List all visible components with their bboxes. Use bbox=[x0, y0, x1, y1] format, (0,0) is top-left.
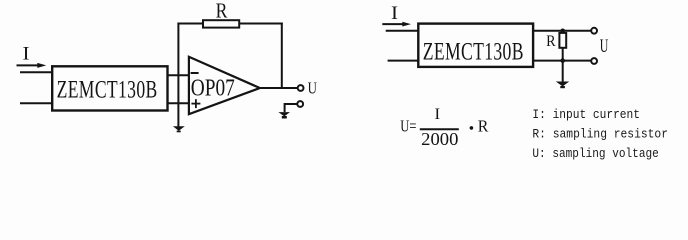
wire bottom terminal to ground bbox=[285, 104, 298, 112]
svg-text:I: input current: I: input current bbox=[532, 107, 640, 122]
terminal circle right top bbox=[591, 28, 597, 34]
wire top input left segment bbox=[20, 71, 54, 73]
svg-text:ZEMCT130B: ZEMCT130B bbox=[423, 38, 524, 65]
terminal circle right bottom bbox=[591, 58, 597, 64]
op-amp non-inverting input plus sign bbox=[191, 103, 200, 105]
wire sampling resistor branch bbox=[562, 31, 564, 82]
resistor R feedback body bbox=[203, 20, 239, 27]
svg-text:I: I bbox=[391, 3, 398, 24]
resistor R sampling body bbox=[559, 33, 566, 48]
svg-text:I: I bbox=[23, 44, 30, 65]
wire top input (right circuit) left segment bbox=[386, 30, 420, 32]
junction dot bottom bbox=[560, 58, 565, 63]
svg-text:2000: 2000 bbox=[421, 129, 458, 149]
module ZEMCT130B (right) bbox=[418, 24, 533, 67]
op-amp U1 OP07 bbox=[189, 57, 260, 114]
op-amp inverting input minus sign bbox=[191, 72, 199, 74]
ground (output side) bbox=[278, 112, 290, 116]
svg-text:ZEMCT130B: ZEMCT130B bbox=[57, 77, 158, 104]
module ZEMCT130B (left) bbox=[52, 66, 167, 110]
current arrow (right) bbox=[382, 23, 403, 25]
wire bottom input (right circuit) left segment bbox=[388, 60, 420, 62]
wire feedback top bbox=[177, 23, 282, 25]
wire op-amp output bbox=[259, 87, 298, 89]
formula fraction bar bbox=[420, 128, 459, 130]
svg-text:R: R bbox=[546, 33, 556, 50]
svg-text:OP07: OP07 bbox=[191, 75, 235, 101]
svg-text:U: U bbox=[600, 36, 609, 57]
svg-text:I: I bbox=[435, 106, 441, 123]
svg-text:R: R bbox=[216, 0, 228, 23]
svg-text:U: U bbox=[308, 79, 317, 98]
terminal circle output bottom bbox=[297, 101, 303, 107]
wire bottom output to terminal bbox=[533, 60, 591, 62]
svg-text:R: R bbox=[478, 116, 489, 135]
svg-text:R: sampling resistor: R: sampling resistor bbox=[532, 127, 668, 142]
current arrow (left) bbox=[17, 64, 40, 66]
wire feedback left drop to ground bbox=[177, 23, 179, 127]
wire bottom input right segment bbox=[166, 102, 190, 104]
ground (right circuit) bbox=[556, 82, 569, 87]
wire top output to terminal bbox=[533, 30, 591, 32]
wire top input right segment bbox=[166, 74, 190, 76]
svg-text:U: sampling voltage: U: sampling voltage bbox=[532, 146, 658, 161]
svg-text:U=: U= bbox=[400, 116, 416, 135]
wire bottom input left segment bbox=[20, 102, 54, 104]
junction dot top bbox=[560, 29, 565, 34]
terminal circle output top bbox=[298, 85, 304, 91]
formula multiplication dot bbox=[470, 126, 474, 130]
ground (left, below module) bbox=[173, 126, 185, 131]
wire feedback right drop to output bbox=[281, 23, 283, 89]
